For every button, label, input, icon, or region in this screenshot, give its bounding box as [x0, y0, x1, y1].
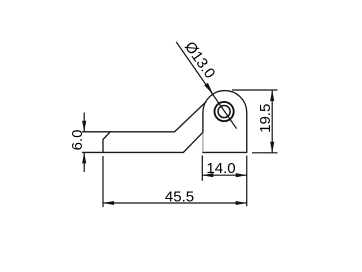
svg-text:45.5: 45.5 — [165, 189, 194, 206]
svg-text:19.5: 19.5 — [257, 104, 274, 133]
svg-text:6.0: 6.0 — [69, 130, 86, 151]
svg-text:14.0: 14.0 — [206, 160, 235, 177]
